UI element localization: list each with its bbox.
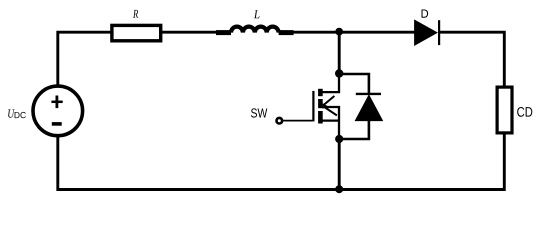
label SW xyxy=(251,108,267,117)
wire: switch branch to bottom rail xyxy=(338,139,341,190)
drain lead xyxy=(320,74,339,92)
channel bar bottom segment xyxy=(318,111,323,124)
bulk arrow vertex wedge xyxy=(323,103,328,108)
resistor R (box) xyxy=(112,25,161,40)
wire: diode D to top-right corner and down to CD box xyxy=(439,32,504,85)
source lead xyxy=(320,119,339,121)
wire: switch branch from top rail to top node xyxy=(338,32,341,74)
label CD xyxy=(517,107,532,117)
wire: top-left corner (left rail upper + top rail to resistor) xyxy=(58,32,111,84)
channel bar top segment xyxy=(318,89,323,96)
wire: CD box to bottom rail, bottom rail, left rail lower xyxy=(58,134,505,189)
diode (antiparallel) cathode bar xyxy=(356,93,381,95)
label R xyxy=(133,10,138,18)
gate bar xyxy=(312,91,314,122)
wire: resistor to inductor xyxy=(162,31,217,34)
label Udc xyxy=(8,109,14,117)
bulk line and source vertical xyxy=(323,107,339,139)
plus sign xyxy=(51,101,62,104)
minus sign xyxy=(52,122,62,126)
diode D (triangle + cathode bar) xyxy=(415,20,437,45)
label L xyxy=(254,10,260,18)
capacitor/load CD (box) xyxy=(497,87,512,133)
SW terminal circle xyxy=(277,118,283,124)
node: top junction dot of switch/diode pair xyxy=(335,69,343,77)
diode (antiparallel) triangle xyxy=(355,95,382,120)
gate lead xyxy=(282,120,313,122)
label D xyxy=(422,10,429,18)
inductor L xyxy=(216,27,294,33)
channel bar middle segment xyxy=(318,99,323,108)
bulk arrow upper barb xyxy=(323,96,335,106)
node A: junction dot on top rail xyxy=(335,28,343,36)
node: bottom junction dot of switch/diode pair xyxy=(335,135,343,143)
diode (antiparallel) branch top wire xyxy=(339,74,369,95)
wire: inductor to diode D xyxy=(293,31,415,34)
voltage source Udc (circle) xyxy=(33,86,83,136)
diode (antiparallel) branch bottom wire xyxy=(339,121,369,139)
bulk arrow lower barb xyxy=(323,106,337,115)
node: junction dot on bottom rail xyxy=(335,185,343,193)
